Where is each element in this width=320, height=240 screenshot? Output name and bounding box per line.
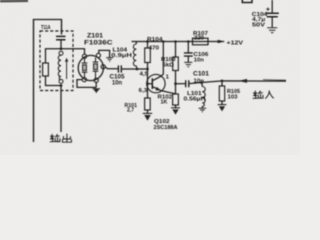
- label C104 4.7u 50V: [252, 12, 268, 29]
- node (top of tuned circuit): [60, 47, 63, 50]
- label 输入 (input): [253, 90, 274, 98]
- node (bottom of tuned circuit): [60, 84, 63, 87]
- node L104 bottom: [136, 68, 139, 71]
- ground (C104): [267, 28, 277, 33]
- capacitor C101: [176, 80, 189, 87]
- wire output line 2: [60, 86, 62, 133]
- ground (R105): [218, 105, 227, 112]
- label R101 2.7: [125, 103, 138, 113]
- inductor L104: [133, 42, 147, 70]
- label Q102 2SC188A: [154, 119, 179, 131]
- crystal element 2 (inside filter): [93, 58, 99, 79]
- wire filter top-right pin to case ground: [99, 50, 110, 57]
- resistor R101: [145, 84, 151, 114]
- label C101: [193, 71, 210, 84]
- label C105 10n: [110, 74, 126, 86]
- node base: [146, 82, 149, 85]
- resistor (T11A damping): [43, 63, 61, 86]
- resistor R105: [219, 80, 224, 105]
- label 1 (collector voltage): [166, 74, 170, 80]
- supply rail: [132, 41, 219, 43]
- capacitor C105: [118, 65, 137, 72]
- label +12V: [227, 40, 244, 46]
- scan artifact streak top-left: [0, 0, 28, 2]
- wire collector to rail: [161, 40, 164, 76]
- label L101 0.56uH: [184, 91, 206, 103]
- resistor R102: [173, 84, 179, 108]
- label 输出 (output): [50, 134, 72, 143]
- label T11A: [41, 25, 51, 31]
- label 6.3 (voltage): [139, 88, 148, 94]
- capacitor C104 electrolytic: [266, 0, 279, 27]
- ground (filter main): [93, 89, 100, 93]
- node R104 bottom: [146, 68, 149, 71]
- label 4.5 (voltage): [140, 72, 149, 78]
- label R102 1K: [158, 94, 173, 105]
- input arrowhead: [239, 79, 248, 83]
- resistor fragment (top edge, cropped): [242, 0, 252, 3]
- dashed shield box (T11A): [40, 31, 73, 91]
- ceramic filter Z101 body: [78, 55, 103, 80]
- node emitter/input: [174, 82, 177, 85]
- label R104 470: [147, 37, 164, 51]
- wire (tuned circuit top bar): [46, 49, 62, 63]
- transformer T11A outline: [34, 20, 62, 143]
- wire filter bottom-left pin to ground run: [77, 80, 96, 88]
- crystal element 1 (inside filter): [82, 58, 88, 77]
- resistor R103: [173, 40, 179, 83]
- label Z101 F1036C: [84, 33, 113, 47]
- inductor L101: [200, 81, 205, 108]
- +12V arrow: [217, 40, 225, 43]
- resistor R107: [193, 38, 209, 45]
- capacitor C106: [184, 40, 193, 62]
- ground (C106): [184, 62, 192, 66]
- wire load node to base: [148, 69, 152, 84]
- ground (L101): [199, 108, 207, 112]
- label C106 10n: [193, 52, 209, 64]
- label R103 5k: [161, 57, 176, 68]
- label R107 220: [193, 31, 208, 42]
- filter terminal pins: [82, 53, 105, 82]
- ground (R102): [171, 108, 180, 115]
- paper grain: [0, 0, 300, 155]
- transistor Q102: [147, 74, 176, 93]
- resistor R104: [145, 40, 151, 69]
- wire filter bottom-right pin down: [95, 82, 97, 87]
- ground (R101): [143, 113, 152, 120]
- inductor (T11A tuned coil with slug arrow): [58, 51, 68, 83]
- label L104 0.9uH: [111, 47, 132, 59]
- ground (filter case, small): [106, 58, 113, 62]
- wire filter output to C105: [105, 67, 118, 69]
- capacitor (T11A internal, top): [56, 36, 66, 48]
- label R105 103: [227, 89, 240, 100]
- wire T11A secondary to filter input: [61, 49, 85, 54]
- input wire: [189, 80, 286, 84]
